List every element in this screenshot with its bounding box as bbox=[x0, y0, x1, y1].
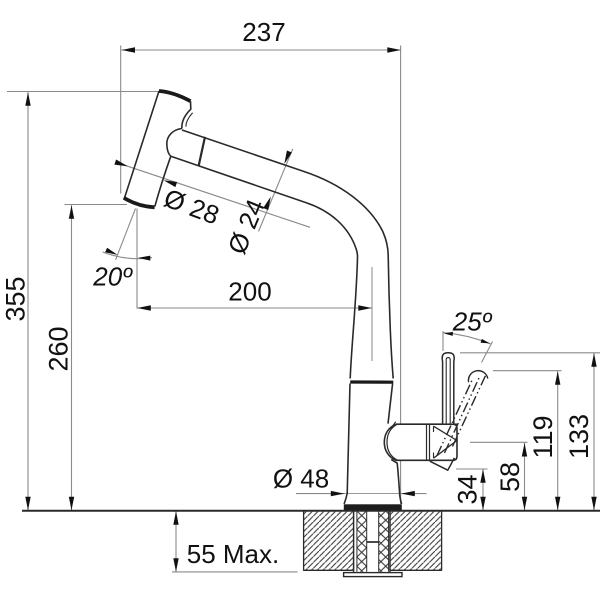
svg-text:355: 355 bbox=[1, 276, 31, 321]
svg-text:119: 119 bbox=[528, 415, 558, 458]
svg-text:58: 58 bbox=[495, 462, 525, 492]
svg-text:237: 237 bbox=[242, 17, 285, 47]
svg-text:133: 133 bbox=[564, 414, 594, 459]
svg-text:55 Max.: 55 Max. bbox=[187, 539, 280, 569]
svg-text:260: 260 bbox=[44, 326, 74, 371]
svg-text:34: 34 bbox=[453, 474, 483, 504]
svg-text:200: 200 bbox=[228, 277, 271, 307]
svg-text:25º: 25º bbox=[452, 307, 493, 337]
svg-text:20º: 20º bbox=[92, 262, 133, 292]
svg-text:Ø 48: Ø 48 bbox=[273, 464, 329, 494]
